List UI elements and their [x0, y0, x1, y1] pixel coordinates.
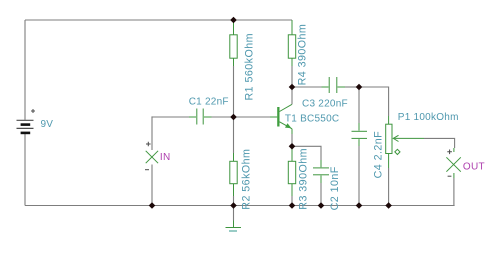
node junction base node	[230, 114, 237, 121]
svg-text:C4 2.2nF: C4 2.2nF	[372, 131, 384, 179]
svg-text:R1 560kOhm: R1 560kOhm	[243, 33, 255, 100]
wire C4 to bottom rail	[358, 146, 360, 206]
node junction rail R3	[289, 202, 296, 209]
node junction rail P1	[385, 202, 392, 209]
wire base node to transistor base	[234, 116, 271, 118]
wire collector to node	[291, 87, 293, 104]
resistor R4	[288, 20, 295, 66]
svg-text:R3 390Ohm: R3 390Ohm	[297, 148, 309, 210]
node junction rail C4	[356, 202, 363, 209]
transistor T1 BC550C	[270, 104, 292, 134]
svg-text:OUT: OUT	[463, 162, 485, 173]
wire wiper to OUT	[424, 138, 455, 148]
wire collector node to C3	[292, 86, 322, 88]
node junction emitter node	[289, 143, 296, 150]
resistor R2	[230, 153, 237, 196]
node junction rail C2	[318, 202, 325, 209]
svg-text:C3 220nF: C3 220nF	[302, 99, 348, 110]
svg-text:C2 10nF: C2 10nF	[329, 166, 341, 210]
wire C1 to base node	[212, 116, 234, 118]
wire node to P1 top	[359, 87, 389, 116]
wire R3 to bottom rail	[291, 196, 293, 206]
ground	[226, 206, 242, 232]
node junction rail R2	[230, 202, 237, 209]
capacitor C1	[189, 109, 212, 125]
wire C2 to bottom rail	[320, 183, 322, 206]
wire battery to bottom rail	[24, 134, 26, 206]
node junction collector node	[289, 84, 296, 91]
battery B1 9V	[17, 109, 36, 133]
capacitor C2	[313, 160, 329, 183]
svg-text:C1 22nF: C1 22nF	[189, 97, 229, 108]
wire left vertical from top rail to battery	[24, 20, 26, 120]
node junction rail IN	[149, 202, 156, 209]
node junction top rail R1	[230, 17, 237, 24]
wire P1 bottom to rail	[388, 168, 390, 206]
wire top rail	[25, 19, 292, 21]
wire R1 bottom to base node	[233, 66, 235, 117]
svg-text:R4 390Ohm: R4 390Ohm	[297, 24, 309, 86]
wire emitter to node	[291, 134, 293, 146]
wire R4 bottom to collector node	[291, 66, 293, 87]
wire IN corner to C1	[152, 115, 189, 118]
terminal OUT	[446, 148, 460, 206]
svg-text:IN: IN	[160, 152, 171, 163]
capacitor C4	[352, 87, 368, 146]
svg-text:P1 100kOhm: P1 100kOhm	[398, 112, 459, 123]
resistor R1	[230, 20, 237, 66]
capacitor C3	[322, 77, 346, 93]
wire emitter node to C2	[292, 146, 321, 160]
wire base node to R2	[233, 117, 235, 153]
terminal IN	[145, 117, 158, 206]
resistor R3	[288, 147, 295, 196]
wire C3 to node	[345, 86, 359, 88]
svg-text:T1 BC550C: T1 BC550C	[285, 113, 340, 124]
wire bottom ground rail	[25, 205, 455, 207]
svg-text:R2 56kOhm: R2 56kOhm	[241, 149, 253, 210]
svg-text:9V: 9V	[41, 119, 54, 130]
wire R2 to bottom rail	[233, 196, 235, 206]
node junction C3-P1 node	[356, 84, 363, 91]
potentiometer P1	[386, 116, 424, 168]
